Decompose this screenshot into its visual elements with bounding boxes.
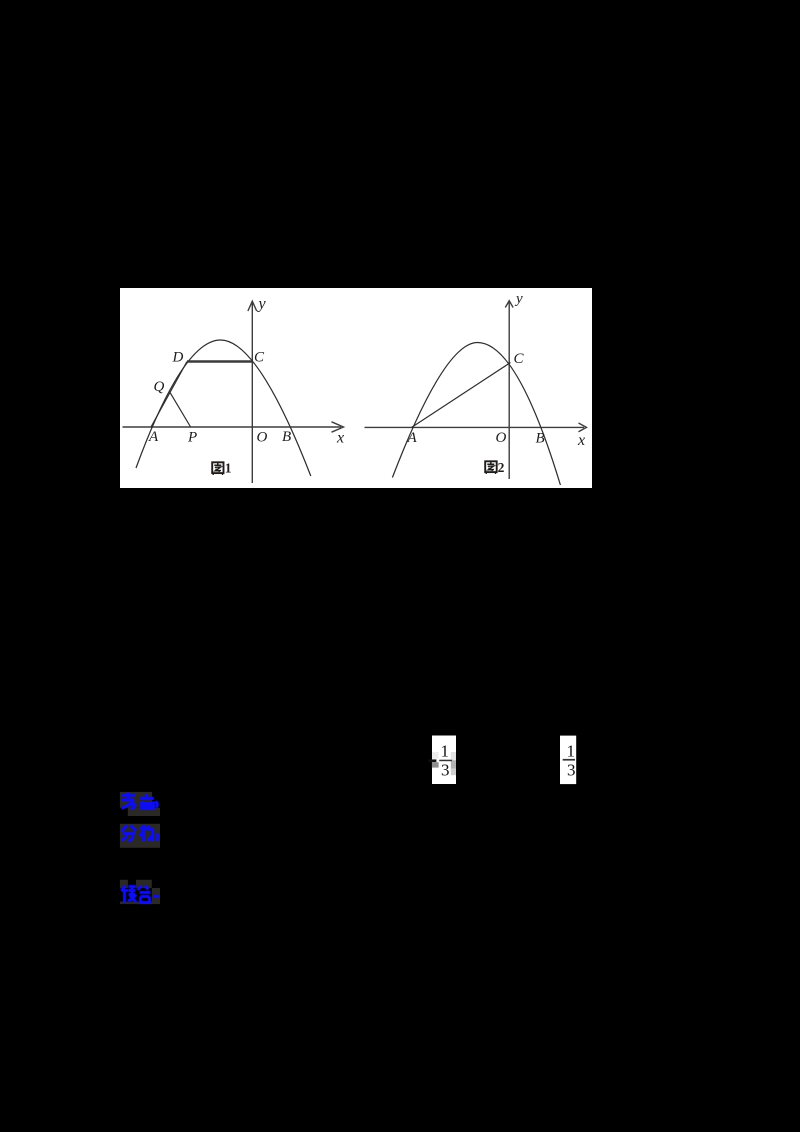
svg-text:D: D: [172, 350, 184, 366]
svg-text:x: x: [336, 430, 344, 447]
svg-text:x: x: [577, 432, 585, 449]
svg-text:C: C: [514, 351, 525, 367]
svg-text:B: B: [536, 431, 545, 447]
fig1 chord AD: [151, 362, 187, 428]
svg-text:y: y: [257, 296, 267, 313]
svg-text:3: 3: [441, 761, 450, 780]
svg-text:2: 2: [498, 460, 505, 475]
fig1 segment QP: [170, 392, 191, 427]
fig1 x-axis: [123, 422, 344, 432]
svg-text:C: C: [254, 350, 265, 366]
svg-text:1: 1: [225, 461, 232, 476]
fig1 y-axis: [248, 301, 257, 483]
svg-text:P: P: [187, 430, 197, 446]
svg-text:B: B: [282, 429, 291, 445]
svg-text:y: y: [514, 291, 523, 307]
svg-text:1: 1: [441, 741, 450, 760]
fig1 segment DC: [187, 360, 252, 362]
fig2 y-axis: [505, 301, 513, 480]
fig1 caption 图1: [212, 461, 232, 476]
white figure panel: [120, 288, 592, 488]
fig2 x-axis: [365, 423, 587, 432]
svg-text:1: 1: [567, 741, 576, 760]
fig1 parabola: [136, 340, 311, 476]
fig2 caption 图2: [485, 460, 504, 475]
svg-text:A: A: [407, 430, 418, 446]
svg-text:3: 3: [567, 761, 576, 780]
svg-text:Q: Q: [154, 379, 165, 395]
svg-text:O: O: [257, 430, 268, 446]
svg-text:O: O: [496, 430, 507, 446]
fig2 parabola: [392, 343, 560, 486]
svg-text:A: A: [148, 429, 159, 445]
fig2 line AC: [412, 363, 511, 428]
